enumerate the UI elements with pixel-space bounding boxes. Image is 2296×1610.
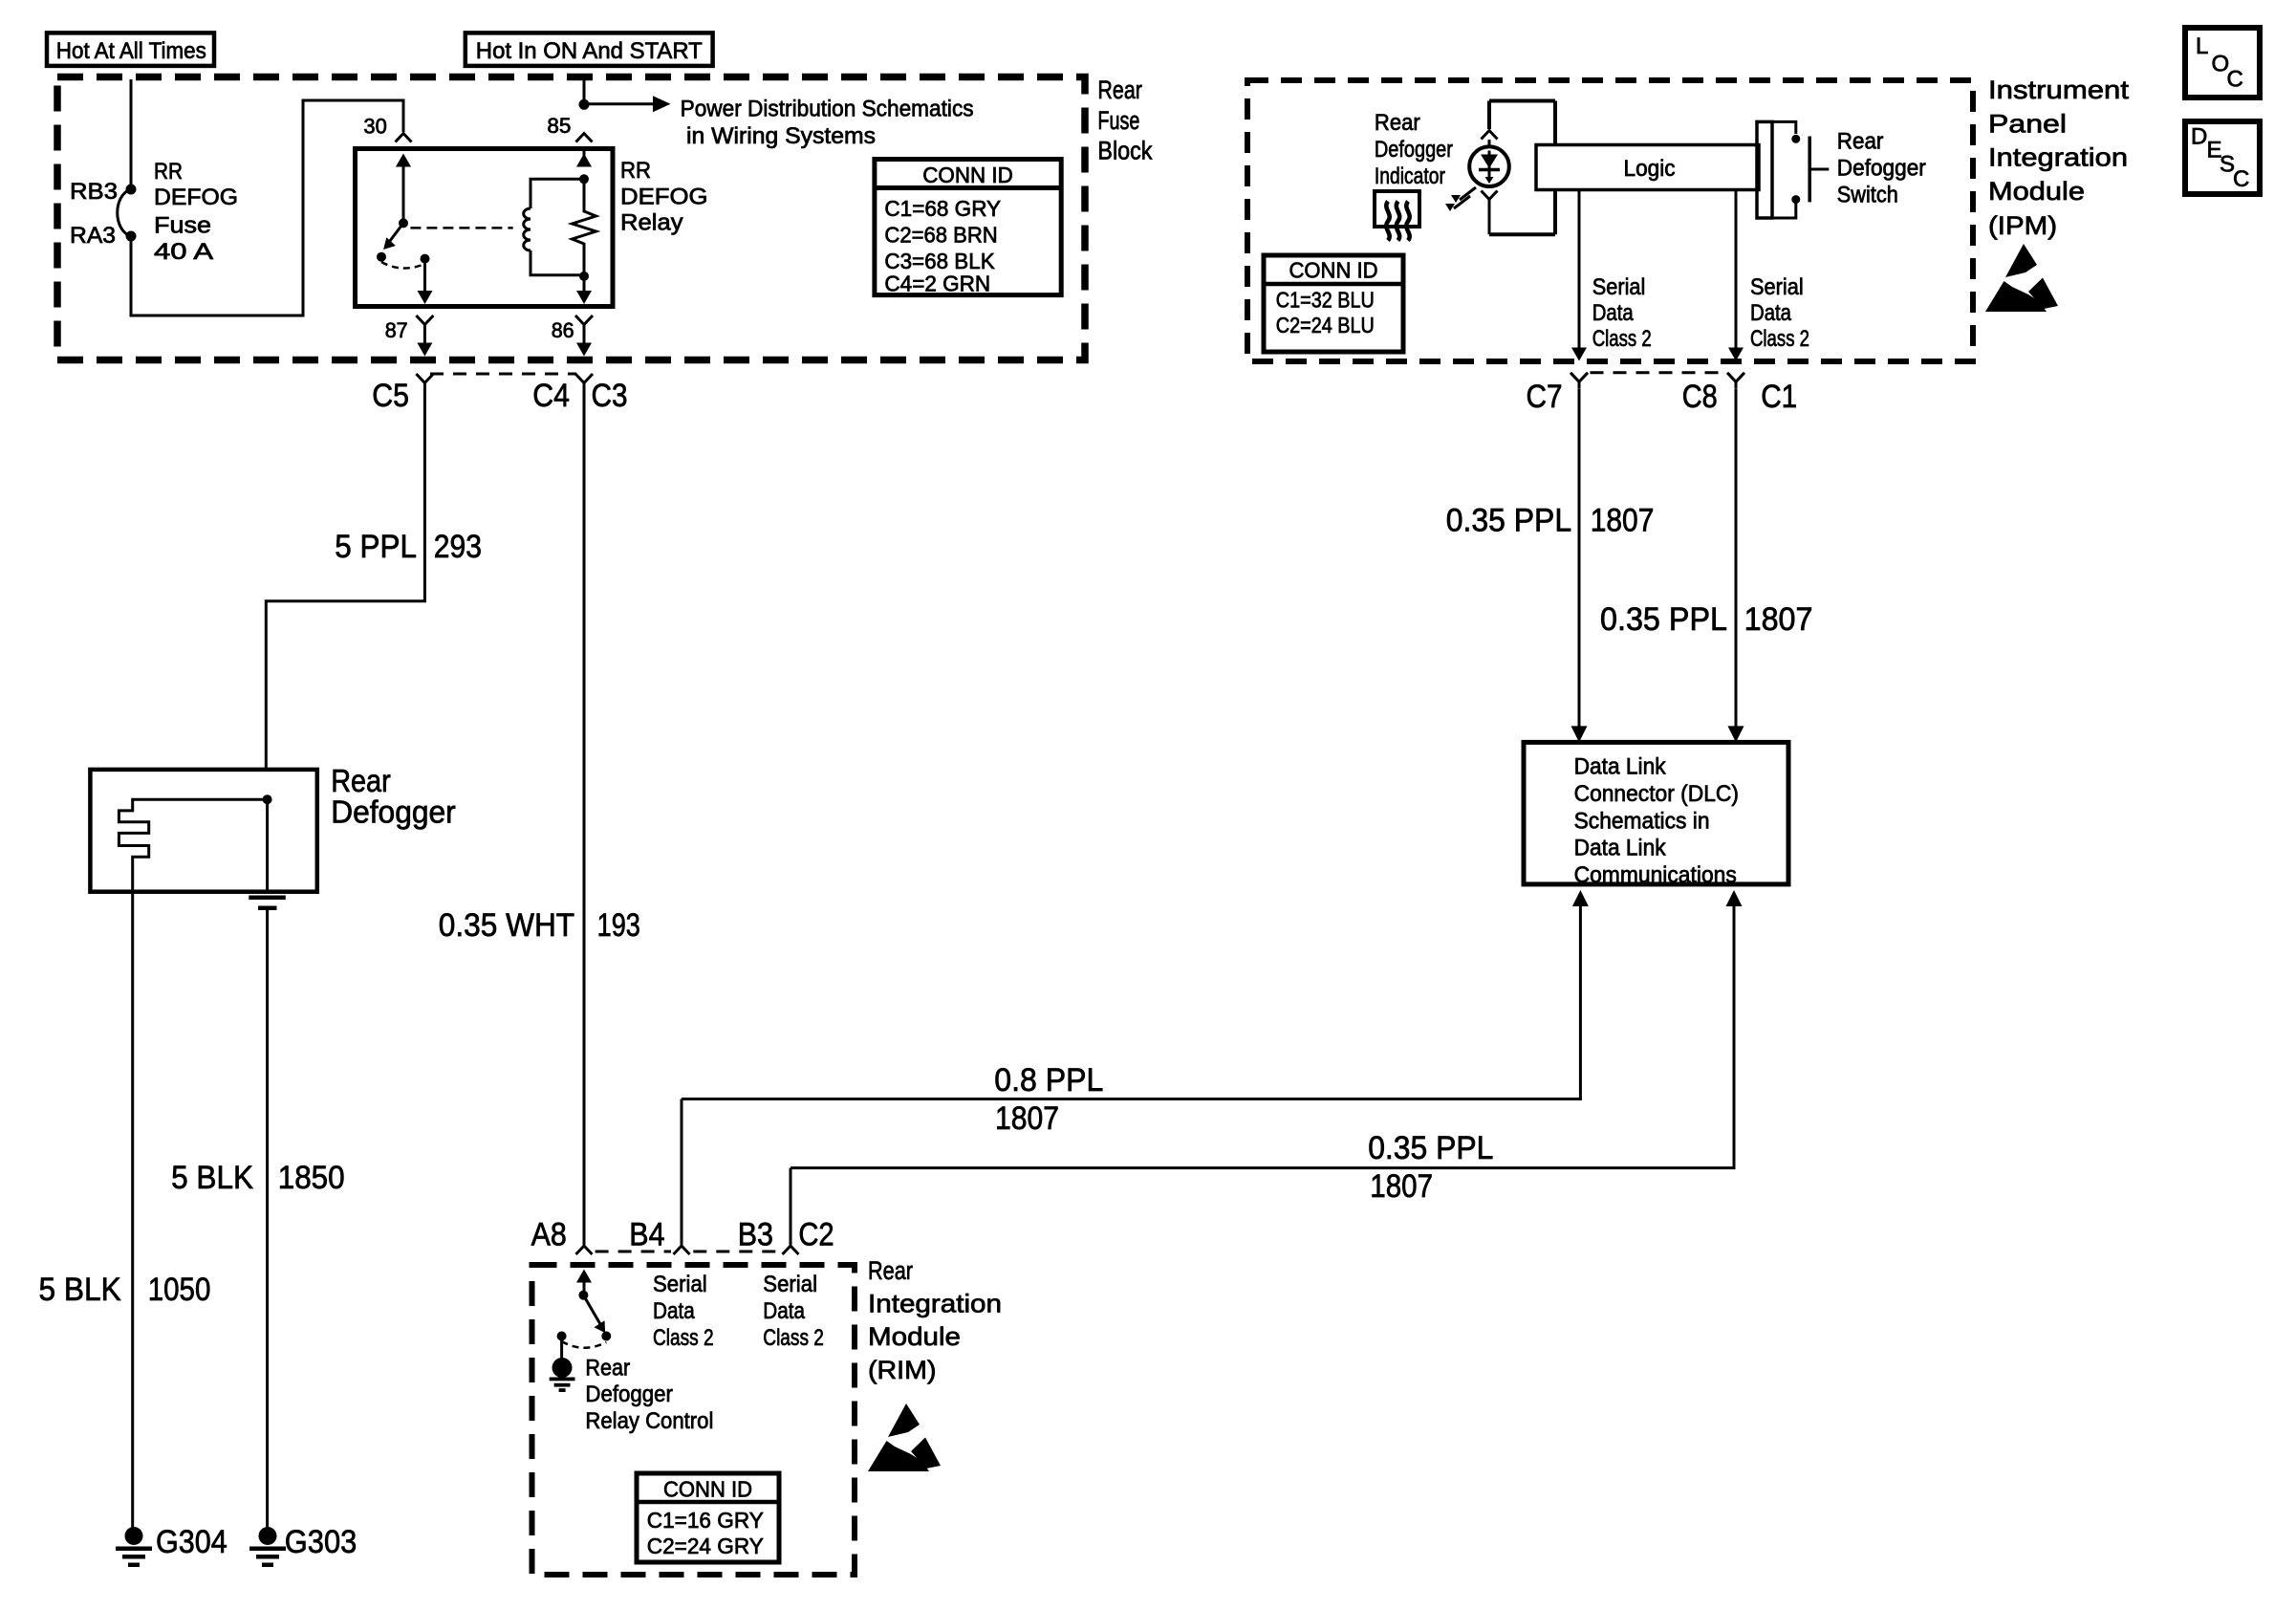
svg-text:Data: Data	[1592, 300, 1635, 326]
svg-text:RR: RR	[620, 158, 651, 184]
svg-text:RB3: RB3	[70, 179, 118, 205]
svg-text:30: 30	[363, 115, 386, 139]
svg-text:1850: 1850	[278, 1160, 345, 1196]
svg-text:1807: 1807	[995, 1100, 1059, 1137]
svg-text:0.35 PPL: 0.35 PPL	[1446, 503, 1571, 539]
svg-text:Connector (DLC): Connector (DLC)	[1574, 781, 1739, 807]
svg-text:Hot At All Times: Hot At All Times	[56, 38, 206, 64]
svg-text:C1: C1	[1761, 379, 1797, 415]
svg-text:C2=24 BLU: C2=24 BLU	[1276, 313, 1375, 337]
svg-text:C1=32 BLU: C1=32 BLU	[1276, 288, 1375, 313]
svg-text:0.35 PPL: 0.35 PPL	[1368, 1130, 1493, 1166]
svg-text:Defogger: Defogger	[1837, 156, 1926, 182]
svg-text:Hot In ON And START: Hot In ON And START	[476, 38, 703, 64]
svg-text:0.35 WHT: 0.35 WHT	[439, 907, 574, 944]
svg-text:Class 2: Class 2	[763, 1325, 824, 1351]
svg-text:Rear: Rear	[1375, 110, 1420, 136]
svg-text:CONN ID: CONN ID	[922, 163, 1013, 187]
svg-text:Class 2: Class 2	[1750, 326, 1809, 352]
svg-text:Class 2: Class 2	[653, 1325, 714, 1351]
svg-text:Instrument: Instrument	[1988, 76, 2130, 104]
svg-text:C3=68 BLK: C3=68 BLK	[884, 249, 995, 273]
svg-text:Data: Data	[1750, 300, 1792, 326]
svg-text:Rear: Rear	[868, 1256, 913, 1285]
svg-text:L: L	[2196, 33, 2208, 59]
svg-text:Serial: Serial	[653, 1272, 707, 1297]
svg-text:5 BLK: 5 BLK	[39, 1272, 121, 1308]
svg-text:DEFOG: DEFOG	[620, 184, 708, 209]
svg-text:Relay: Relay	[620, 210, 683, 236]
svg-text:C1=68 GRY: C1=68 GRY	[884, 196, 1001, 221]
svg-text:Module: Module	[868, 1322, 961, 1351]
svg-text:1807: 1807	[1744, 601, 1813, 638]
svg-text:0.8 PPL: 0.8 PPL	[994, 1062, 1103, 1099]
svg-text:CONN ID: CONN ID	[663, 1477, 752, 1502]
svg-text:C2: C2	[798, 1216, 834, 1252]
svg-text:(RIM): (RIM)	[868, 1356, 937, 1384]
svg-text:293: 293	[434, 529, 482, 565]
svg-text:Panel: Panel	[1988, 110, 2067, 139]
svg-text:Communications: Communications	[1574, 862, 1737, 888]
svg-text:RR: RR	[154, 159, 183, 185]
svg-text:CONN ID: CONN ID	[1289, 258, 1378, 283]
svg-text:Serial: Serial	[763, 1272, 817, 1297]
svg-text:C4=2 GRN: C4=2 GRN	[884, 272, 990, 296]
svg-text:A8: A8	[531, 1216, 567, 1252]
svg-text:Fuse: Fuse	[154, 212, 211, 238]
svg-text:C: C	[2227, 67, 2243, 93]
svg-text:C5: C5	[372, 378, 409, 414]
svg-text:Defogger: Defogger	[585, 1382, 673, 1407]
svg-text:Module: Module	[1988, 177, 2085, 206]
svg-text:G303: G303	[285, 1524, 357, 1560]
svg-text:G304: G304	[156, 1524, 227, 1560]
svg-text:86: 86	[552, 318, 574, 342]
svg-text:DEFOG: DEFOG	[154, 185, 238, 210]
svg-text:Integration: Integration	[1988, 142, 2128, 171]
svg-text:1050: 1050	[148, 1272, 211, 1308]
svg-text:B4: B4	[629, 1216, 664, 1252]
svg-text:Integration: Integration	[868, 1290, 1002, 1318]
svg-text:0.35 PPL: 0.35 PPL	[1600, 601, 1727, 638]
svg-text:C3: C3	[592, 378, 628, 414]
svg-text:Indicator: Indicator	[1375, 163, 1445, 189]
svg-text:C4: C4	[532, 378, 570, 414]
svg-text:Logic: Logic	[1624, 156, 1676, 182]
svg-text:B3: B3	[738, 1216, 773, 1252]
svg-text:C: C	[2233, 166, 2249, 192]
svg-text:1807: 1807	[1370, 1168, 1433, 1205]
svg-text:40 A: 40 A	[154, 239, 213, 265]
svg-text:5 BLK: 5 BLK	[171, 1160, 253, 1196]
svg-text:Fuse: Fuse	[1097, 106, 1139, 135]
svg-text:Data: Data	[653, 1298, 695, 1324]
svg-text:in Wiring Systems: in Wiring Systems	[686, 123, 876, 149]
svg-text:C7: C7	[1527, 379, 1563, 415]
svg-text:C1=16 GRY: C1=16 GRY	[647, 1508, 764, 1533]
svg-text:Power Distribution Schematics: Power Distribution Schematics	[681, 97, 974, 122]
svg-text:Data Link: Data Link	[1574, 754, 1667, 780]
svg-text:Defogger: Defogger	[331, 794, 456, 830]
svg-text:C2=24 GRY: C2=24 GRY	[647, 1534, 764, 1558]
svg-text:Schematics in: Schematics in	[1574, 808, 1710, 834]
svg-text:Rear: Rear	[1097, 76, 1142, 104]
svg-text:Data Link: Data Link	[1574, 836, 1667, 861]
svg-text:C8: C8	[1682, 379, 1718, 415]
svg-text:Switch: Switch	[1837, 183, 1898, 208]
svg-text:(IPM): (IPM)	[1988, 211, 2057, 240]
svg-text:RA3: RA3	[70, 223, 116, 249]
svg-text:193: 193	[597, 907, 640, 944]
svg-text:Rear: Rear	[585, 1355, 630, 1381]
svg-text:85: 85	[547, 114, 571, 138]
svg-text:Data: Data	[763, 1298, 805, 1324]
svg-text:Class 2: Class 2	[1592, 326, 1652, 352]
svg-text:Serial: Serial	[1592, 274, 1646, 300]
svg-text:Rear: Rear	[1837, 129, 1884, 155]
svg-text:C2=68 BRN: C2=68 BRN	[884, 223, 997, 248]
svg-text:Rear: Rear	[331, 763, 391, 798]
svg-text:Serial: Serial	[1750, 274, 1804, 300]
svg-text:Defogger: Defogger	[1375, 137, 1453, 163]
svg-text:Relay Control: Relay Control	[585, 1408, 713, 1434]
svg-text:87: 87	[385, 318, 408, 342]
svg-text:Block: Block	[1097, 137, 1152, 165]
svg-text:5 PPL: 5 PPL	[335, 529, 417, 565]
svg-text:1807: 1807	[1591, 503, 1655, 539]
svg-text:D: D	[2191, 124, 2207, 150]
